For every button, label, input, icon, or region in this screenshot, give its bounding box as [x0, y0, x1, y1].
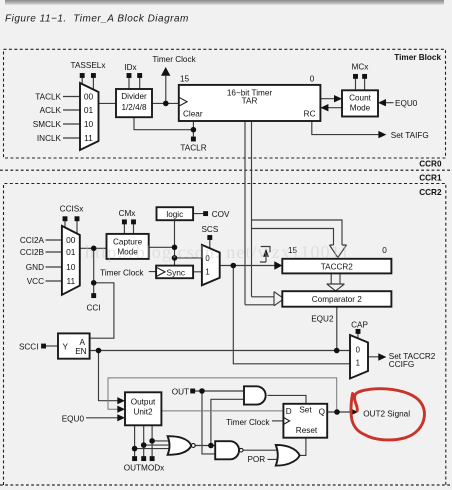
svg-text:0: 0 [310, 75, 315, 84]
svg-text:GND: GND [26, 263, 44, 272]
svg-text:OUT2 Signal: OUT2 Signal [363, 410, 410, 419]
svg-text:Sync: Sync [167, 267, 186, 277]
svg-text:TACCR2: TACCR2 [321, 262, 354, 271]
svg-text:D: D [286, 407, 292, 416]
svg-text:Unit2: Unit2 [133, 408, 153, 417]
svg-text:POR: POR [247, 455, 265, 464]
svg-text:Count: Count [349, 94, 372, 103]
svg-text:0: 0 [356, 346, 361, 355]
svg-text:15: 15 [180, 75, 190, 84]
svg-text:TACLR: TACLR [180, 144, 206, 153]
svg-text:CCR2: CCR2 [419, 188, 442, 197]
svg-text:Y: Y [63, 343, 69, 352]
svg-text:Output: Output [131, 398, 156, 407]
svg-text:CCI2B: CCI2B [20, 248, 45, 257]
svg-text:1/2/4/8: 1/2/4/8 [121, 103, 146, 112]
svg-text:EQU2: EQU2 [311, 315, 334, 324]
svg-text:logic: logic [166, 210, 183, 219]
svg-text:Q: Q [319, 408, 325, 417]
svg-text:Timer Clock: Timer Clock [152, 55, 196, 64]
svg-text:OUT: OUT [172, 388, 189, 397]
svg-text:CCR1: CCR1 [419, 174, 442, 183]
svg-text:CCI: CCI [86, 304, 100, 313]
svg-text:Timer Clock: Timer Clock [100, 269, 144, 278]
svg-text:OUTMODx: OUTMODx [124, 464, 164, 473]
svg-text:SCS: SCS [201, 225, 218, 234]
svg-text:Set TAIFG: Set TAIFG [391, 131, 429, 140]
svg-text:00: 00 [66, 235, 76, 245]
svg-text:1: 1 [205, 268, 209, 277]
svg-text:TASSELx: TASSELx [71, 61, 106, 70]
svg-text:EQU0: EQU0 [395, 99, 418, 108]
svg-text:0: 0 [382, 246, 387, 255]
svg-text:A: A [80, 338, 86, 347]
svg-text:Timer Block: Timer Block [394, 53, 441, 62]
svg-text:Timer Clock: Timer Clock [226, 418, 270, 427]
svg-text:COV: COV [212, 210, 230, 219]
svg-text:11: 11 [66, 276, 75, 286]
svg-text:CMx: CMx [119, 209, 136, 218]
svg-text:SMCLK: SMCLK [33, 120, 62, 129]
svg-text:TACLK: TACLK [35, 93, 61, 102]
svg-text:Set: Set [299, 406, 312, 415]
svg-text:http://blog.csdn. net/wzx11001: http://blog.csdn. net/wzx110011 [85, 242, 350, 262]
svg-text:10: 10 [66, 262, 76, 272]
svg-text:1: 1 [356, 359, 360, 368]
svg-text:INCLK: INCLK [37, 134, 62, 143]
svg-text:CCIFG: CCIFG [389, 360, 414, 369]
svg-text:IDx: IDx [124, 63, 136, 72]
svg-text:Figure 11−1. Timer_A Block Di: Figure 11−1. Timer_A Block Diagram [5, 14, 189, 25]
svg-text:Divider: Divider [121, 92, 147, 101]
svg-text:CCI2A: CCI2A [20, 236, 45, 245]
svg-text:SCCI: SCCI [19, 343, 39, 352]
svg-text:VCC: VCC [27, 277, 44, 286]
svg-text:ACLK: ACLK [40, 106, 62, 115]
svg-text:TAR: TAR [242, 96, 258, 105]
svg-text:00: 00 [84, 92, 94, 102]
svg-text:RC: RC [304, 110, 316, 119]
svg-text:EN: EN [75, 347, 86, 356]
svg-text:EQU0: EQU0 [62, 415, 85, 424]
svg-text:CCR0: CCR0 [419, 160, 442, 169]
svg-text:10: 10 [84, 119, 94, 129]
svg-text:01: 01 [66, 247, 76, 257]
svg-text:CAP: CAP [351, 321, 368, 330]
svg-text:Reset: Reset [296, 426, 318, 435]
svg-text:Clear: Clear [183, 110, 203, 119]
svg-text:11: 11 [84, 133, 93, 143]
svg-text:Comparator 2: Comparator 2 [312, 295, 363, 304]
svg-text:CCISx: CCISx [60, 204, 84, 213]
svg-text:Mode: Mode [350, 104, 371, 113]
svg-text:MCx: MCx [352, 63, 369, 72]
svg-text:01: 01 [84, 105, 94, 115]
